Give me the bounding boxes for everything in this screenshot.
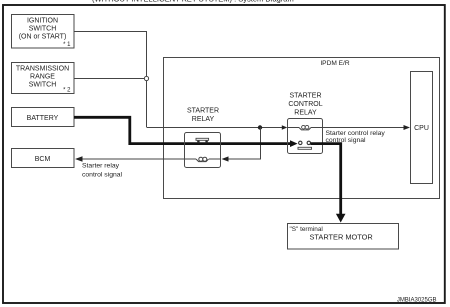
svg-text:RANGE: RANGE xyxy=(30,73,55,80)
svg-text:BATTERY: BATTERY xyxy=(27,115,59,122)
wire vertical junction column xyxy=(146,32,148,128)
starter relay coil circles xyxy=(199,157,203,161)
control relay contact posts xyxy=(299,141,302,144)
control relay coil trough xyxy=(299,127,311,129)
wire horizontal to control relay coil xyxy=(147,127,283,129)
svg-text:JMBIA3025GB: JMBIA3025GB xyxy=(397,297,437,303)
starter relay contact posts xyxy=(197,141,199,144)
svg-text:control signal: control signal xyxy=(326,137,367,144)
box STARTER MOTOR xyxy=(288,224,399,250)
arrow thick into control relay contact xyxy=(290,140,298,147)
svg-text:CONTROL: CONTROL xyxy=(288,101,322,108)
box IGNITION SWITCH xyxy=(12,15,75,49)
wire ignition to junction column xyxy=(74,31,147,33)
box TRANSMISSION RANGE SWITCH xyxy=(12,63,75,94)
wire BCM line with starter relay coil xyxy=(80,158,196,160)
wire transmission to junction xyxy=(74,78,147,80)
svg-text:TRANSMISSION: TRANSMISSION xyxy=(16,65,69,72)
clipped heading text at very top xyxy=(92,0,294,4)
arrow into BCM (left-pointing) xyxy=(75,156,83,161)
svg-text:STARTER: STARTER xyxy=(187,107,219,114)
control relay coil circles xyxy=(302,125,306,129)
svg-text:(ON or START): (ON or START) xyxy=(19,34,67,41)
svg-text:BCM: BCM xyxy=(35,156,51,163)
starter relay coil trough xyxy=(196,159,209,162)
node junction dot xyxy=(258,125,262,129)
svg-text:CPU: CPU xyxy=(414,125,429,132)
starter relay contact bar xyxy=(196,138,209,140)
box starter control relay xyxy=(288,119,323,154)
arrow down into starter motor xyxy=(336,214,346,223)
box BATTERY xyxy=(12,108,75,127)
svg-text:* 1: * 1 xyxy=(63,42,71,48)
svg-text:* 2: * 2 xyxy=(63,88,71,94)
node open-circle junction xyxy=(144,76,148,80)
control relay coil line xyxy=(288,127,300,129)
control relay contact bar below xyxy=(298,147,312,149)
arrow into control relay coil (right-pointing) xyxy=(282,125,288,129)
svg-text:IPDM E/R: IPDM E/R xyxy=(320,60,350,67)
box IPDM E/R xyxy=(164,58,440,199)
svg-text:Starter relay: Starter relay xyxy=(82,162,120,169)
thick wire battery to starter relay and control relay xyxy=(74,117,291,143)
thick wire control relay out to starter motor xyxy=(311,144,341,214)
svg-text:RELAY: RELAY xyxy=(294,109,317,116)
svg-text:IGNITION: IGNITION xyxy=(27,18,58,25)
svg-text:STARTER MOTOR: STARTER MOTOR xyxy=(310,233,373,242)
svg-text:SWITCH: SWITCH xyxy=(29,26,57,33)
box BCM xyxy=(12,149,75,168)
svg-text:STARTER: STARTER xyxy=(289,93,321,100)
svg-text:control signal: control signal xyxy=(82,172,123,179)
svg-text:RELAY: RELAY xyxy=(192,116,215,123)
wire coil to CPU xyxy=(323,127,405,129)
box CPU xyxy=(411,72,433,184)
arrow into CPU (right-pointing) xyxy=(404,125,411,130)
box starter relay xyxy=(185,133,221,168)
svg-text:(WITHOUT INTELLIGENT KEY SYSTE: (WITHOUT INTELLIGENT KEY SYSTEM) : Syste… xyxy=(92,0,294,4)
arrow into starter relay coil (left-pointing) xyxy=(222,156,229,161)
svg-text:SWITCH: SWITCH xyxy=(29,81,57,88)
wire branch down from dot xyxy=(229,128,261,160)
